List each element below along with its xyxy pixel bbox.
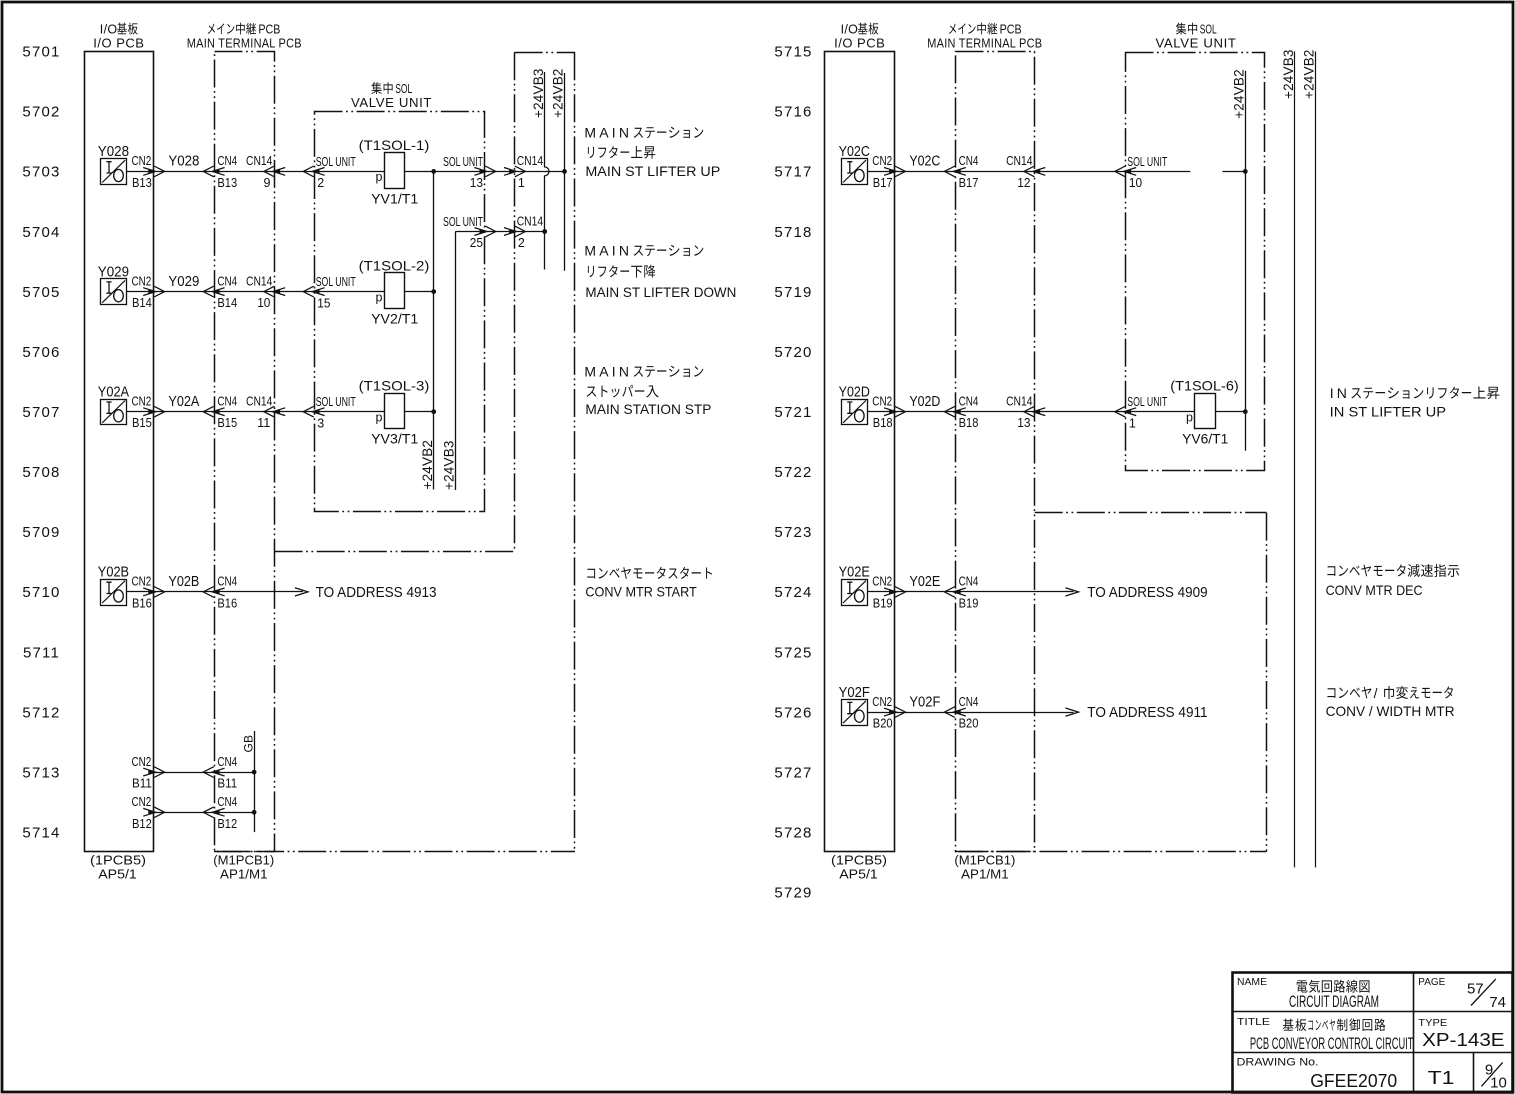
svg-text:Y02B: Y02B <box>168 574 199 590</box>
wire YV3/T1 coil to +24VB2 rail <box>405 411 434 413</box>
wire Y02F to address 4911 <box>868 712 1074 714</box>
svg-text:15: 15 <box>317 296 330 310</box>
svg-text:(T1SOL-1): (T1SOL-1) <box>359 137 430 153</box>
row label 5724 <box>774 584 812 601</box>
I/O output symbol Y028 <box>98 144 129 184</box>
I/O PCB header (right) <box>834 23 885 51</box>
svg-text:CN2: CN2 <box>132 575 152 589</box>
wire CN2-B12 to GB <box>154 812 254 814</box>
svg-text:B14: B14 <box>132 296 152 310</box>
svg-text:p: p <box>376 170 383 184</box>
CN14 harness box (left tall) <box>214 52 575 851</box>
+24VB2 rail (far right) <box>1301 49 1316 867</box>
wire label Y028 <box>168 154 199 170</box>
row label 5709 <box>22 524 60 541</box>
connector CN14 pin 11 <box>246 395 285 431</box>
svg-text:+24VB2: +24VB2 <box>1301 49 1316 99</box>
wire SOL UNIT 25 to +24VB3 rail <box>455 231 544 233</box>
junction YV6/T1 / +24VB2 rail <box>1243 409 1248 414</box>
solenoid coil YV2/T1 (T1SOL-2) <box>359 257 430 326</box>
svg-text:5701: 5701 <box>22 44 60 61</box>
svg-text:B14: B14 <box>217 296 237 310</box>
svg-text:5710: 5710 <box>22 584 60 601</box>
svg-text:25: 25 <box>470 236 483 250</box>
row label 5701 <box>22 44 60 61</box>
svg-text:CN14: CN14 <box>246 154 272 168</box>
svg-text:5725: 5725 <box>774 644 812 661</box>
svg-text:+24VB3: +24VB3 <box>442 440 457 490</box>
svg-text:Y02A: Y02A <box>168 394 199 410</box>
svg-text:B17: B17 <box>959 176 979 190</box>
svg-text:PCB: PCB <box>1000 23 1022 37</box>
solenoid coil YV1/T1 (T1SOL-1) <box>359 137 430 206</box>
svg-text:CN2: CN2 <box>132 755 152 769</box>
row label 5728 <box>774 825 812 842</box>
row label 5720 <box>774 344 812 361</box>
svg-text:MAIN STATION STP: MAIN STATION STP <box>585 401 711 417</box>
svg-text:+24VB2: +24VB2 <box>1232 69 1247 119</box>
row label 5717 <box>774 164 812 181</box>
VALVE UNIT box (left) <box>315 112 485 512</box>
wire CN2-B11 to GB <box>154 772 254 774</box>
svg-text:B15: B15 <box>132 416 152 430</box>
svg-text:CN4: CN4 <box>217 154 237 168</box>
svg-text:13: 13 <box>1017 416 1030 430</box>
svg-text:TO ADDRESS 4909: TO ADDRESS 4909 <box>1087 584 1207 601</box>
svg-text:GB: GB <box>241 735 255 753</box>
svg-text:CN2: CN2 <box>132 274 152 288</box>
row label 5711 <box>23 644 60 661</box>
row label 5723 <box>774 524 812 541</box>
svg-text:SOL UNIT: SOL UNIT <box>443 215 483 229</box>
svg-text:SOL UNIT: SOL UNIT <box>316 155 356 169</box>
row label 5729 <box>774 885 812 902</box>
svg-text:13: 13 <box>470 176 483 190</box>
connector CN4 pin B16 <box>203 575 237 611</box>
svg-text:5702: 5702 <box>22 104 60 121</box>
svg-text:T1: T1 <box>1428 1068 1455 1088</box>
connector CN4 pin B17 (right) <box>944 154 978 190</box>
connector CN4 pin B14 <box>203 274 237 310</box>
MAIN TERMINAL PCB header (left) <box>187 23 302 51</box>
svg-text:CN4: CN4 <box>959 575 979 589</box>
svg-text:Y02D: Y02D <box>839 385 870 401</box>
svg-text:MAIN: MAIN <box>584 363 632 379</box>
svg-text:I/O PCB: I/O PCB <box>834 36 885 51</box>
svg-text:XP-143E: XP-143E <box>1422 1030 1504 1050</box>
svg-text:B19: B19 <box>873 596 893 610</box>
title block PAGE cell <box>1418 976 1506 1011</box>
connector CN2 pin B16 <box>132 575 165 611</box>
svg-text:+24VB3: +24VB3 <box>1281 49 1296 99</box>
connector CN14 pin 12 <box>1006 154 1045 190</box>
+24VB2 rail (left valve unit) <box>420 171 435 489</box>
board ref (1PCB5) AP5/1 (left) <box>90 853 146 882</box>
I/O output symbol Y02C <box>839 144 870 184</box>
svg-text:VALVE UNIT: VALVE UNIT <box>1156 36 1237 51</box>
svg-text:AP1/M1: AP1/M1 <box>220 867 268 882</box>
row label 5706 <box>22 344 60 361</box>
svg-text:+24VB2: +24VB2 <box>420 440 435 490</box>
svg-text:SOL UNIT: SOL UNIT <box>1127 395 1167 409</box>
svg-text:Y028: Y028 <box>98 144 129 160</box>
svg-text:MAIN ST LIFTER DOWN: MAIN ST LIFTER DOWN <box>585 284 736 300</box>
svg-text:5703: 5703 <box>22 164 60 181</box>
svg-text:(1PCB5): (1PCB5) <box>90 853 146 868</box>
svg-text:5719: 5719 <box>774 284 812 301</box>
svg-text:3: 3 <box>317 416 324 430</box>
svg-text:CN14: CN14 <box>517 214 543 228</box>
svg-text:CN2: CN2 <box>872 575 892 589</box>
junction YV1/T1 / +24VB2 <box>431 169 436 174</box>
title block frame <box>1233 973 1514 1093</box>
annotation MAIN STATION STP <box>584 363 711 417</box>
MAIN TERMINAL PCB header (right) <box>927 23 1042 51</box>
I/O output symbol Y029 <box>98 264 129 304</box>
svg-text:CN2: CN2 <box>132 154 152 168</box>
svg-text:CIRCUIT DIAGRAM: CIRCUIT DIAGRAM <box>1289 993 1379 1011</box>
svg-text:TO ADDRESS 4911: TO ADDRESS 4911 <box>1087 704 1207 721</box>
row label 5708 <box>22 464 60 481</box>
svg-text:IN: IN <box>1330 385 1350 401</box>
svg-text:CN4: CN4 <box>959 154 979 168</box>
title block TITLE cell <box>1237 1016 1414 1053</box>
row label 5705 <box>22 284 60 301</box>
connector SOL UNIT pin 2 <box>303 155 356 190</box>
+24VB3 rail (left valve unit) <box>442 232 457 491</box>
svg-text:5728: 5728 <box>774 825 812 842</box>
wire Y02C to valve unit <box>868 171 1246 173</box>
connector CN2 pin B20 (right) <box>872 695 905 731</box>
connector CN2 pin B15 <box>132 395 165 431</box>
connector SOL UNIT pin 25 (valve out) <box>443 215 496 250</box>
svg-text:5705: 5705 <box>22 284 60 301</box>
svg-text:5711: 5711 <box>23 644 60 661</box>
wire label Y02E <box>909 574 940 590</box>
svg-text:1: 1 <box>1129 416 1136 430</box>
svg-text:5715: 5715 <box>774 44 812 61</box>
wire Y028 I/O to valve unit <box>127 171 385 173</box>
svg-text:TO ADDRESS 4913: TO ADDRESS 4913 <box>316 584 437 601</box>
svg-text:10: 10 <box>257 296 270 310</box>
svg-text:CN14: CN14 <box>246 395 272 409</box>
svg-text:B13: B13 <box>217 176 237 190</box>
connector CN14 pin 13 <box>1006 395 1045 431</box>
svg-text:5706: 5706 <box>22 344 60 361</box>
I/O output symbol Y02D <box>839 385 870 425</box>
connector SOL UNIT pin 1 <box>1115 395 1168 430</box>
wire label Y02D <box>909 394 940 410</box>
svg-text:5723: 5723 <box>774 524 812 541</box>
arrow to address 4911 <box>1065 704 1207 721</box>
row label 5704 <box>22 224 60 241</box>
svg-text:I/O PCB: I/O PCB <box>93 36 144 51</box>
svg-text:B16: B16 <box>132 596 152 610</box>
svg-text:CN4: CN4 <box>217 755 237 769</box>
svg-text:Y02A: Y02A <box>98 385 130 401</box>
svg-text:CN4: CN4 <box>217 795 237 809</box>
I/O output symbol Y02A <box>98 385 130 425</box>
svg-text:p: p <box>1186 411 1193 425</box>
wire label Y029 <box>168 274 199 290</box>
svg-text:CN14: CN14 <box>1006 395 1032 409</box>
title block sheet 9/10 cell <box>1482 1062 1507 1092</box>
row label 5719 <box>774 284 812 301</box>
svg-text:10: 10 <box>1490 1074 1507 1091</box>
svg-text:B19: B19 <box>959 596 979 610</box>
svg-text:SOL UNIT: SOL UNIT <box>316 275 356 289</box>
svg-text:5707: 5707 <box>22 404 60 421</box>
svg-text:GFEE2070: GFEE2070 <box>1310 1071 1397 1091</box>
svg-text:Y029: Y029 <box>168 274 199 290</box>
+24VB2 rail (left top) <box>551 68 566 270</box>
row label 5726 <box>774 704 812 721</box>
svg-text:MAIN: MAIN <box>584 243 632 259</box>
row label 5727 <box>774 764 812 781</box>
svg-text:CN4: CN4 <box>217 395 237 409</box>
junction CN14-2 / +24VB3 rail <box>542 229 547 234</box>
svg-text:p: p <box>376 290 383 304</box>
title block DRAWING cell <box>1237 1056 1398 1091</box>
svg-text:+24VB3: +24VB3 <box>531 68 546 118</box>
svg-text:5714: 5714 <box>22 825 60 842</box>
row label 5712 <box>22 704 60 721</box>
svg-text:9: 9 <box>263 176 270 190</box>
junction B11 / GB rail <box>252 770 257 775</box>
row label 5716 <box>774 104 812 121</box>
row label 5722 <box>774 464 812 481</box>
wire label Y02A <box>168 394 199 410</box>
svg-text:5720: 5720 <box>774 344 812 361</box>
svg-text:B11: B11 <box>217 777 237 791</box>
connector CN4 pin B19 (right) <box>944 575 978 611</box>
wire Y02B to address 4913 <box>127 591 303 593</box>
row label 5721 <box>774 404 812 421</box>
svg-text:Y02C: Y02C <box>839 144 870 160</box>
svg-text:TITLE: TITLE <box>1237 1016 1270 1028</box>
wire Y02D to coil <box>868 411 1195 413</box>
row label 5702 <box>22 104 60 121</box>
GB rail <box>241 731 255 832</box>
svg-text:AP1/M1: AP1/M1 <box>961 867 1009 882</box>
svg-text:DRAWING No.: DRAWING No. <box>1237 1056 1319 1068</box>
svg-text:5709: 5709 <box>22 524 60 541</box>
connector CN4 pin B18 (right) <box>944 395 978 431</box>
junction YV2/T1 / +24VB2 <box>431 289 436 294</box>
svg-text:MAIN ST LIFTER UP: MAIN ST LIFTER UP <box>585 163 720 179</box>
wire YV2/T1 coil to +24VB2 rail <box>405 291 434 293</box>
svg-text:5712: 5712 <box>22 704 60 721</box>
row label 5714 <box>22 825 60 842</box>
I/O PCB header (left) <box>93 23 144 51</box>
svg-text:(T1SOL-3): (T1SOL-3) <box>359 377 430 393</box>
row label 5715 <box>774 44 812 61</box>
junction YV3/T1 / +24VB2 <box>431 409 436 414</box>
wire label Y02B <box>168 574 199 590</box>
svg-text:CONV MTR START: CONV MTR START <box>585 583 697 599</box>
svg-text:5721: 5721 <box>774 404 812 421</box>
connector CN2 pin B19 (right) <box>872 575 905 611</box>
svg-text:I/O: I/O <box>100 23 118 37</box>
cable shield line (left outer) <box>275 52 515 552</box>
svg-text:B16: B16 <box>217 596 237 610</box>
svg-text:5717: 5717 <box>774 164 812 181</box>
solenoid coil YV3/T1 (T1SOL-3) <box>359 377 430 446</box>
connector CN4 pin B12 <box>203 795 237 831</box>
svg-text:AP5/1: AP5/1 <box>98 867 137 882</box>
I/O output symbol Y02E <box>839 565 871 606</box>
svg-text:YV6/T1: YV6/T1 <box>1182 431 1228 447</box>
wire Y02A I/O to valve unit <box>127 411 385 413</box>
connector SOL UNIT pin 10 <box>1115 155 1168 190</box>
connector CN14 pin 9 <box>246 154 285 190</box>
svg-text:5713: 5713 <box>22 764 60 781</box>
row label 5713 <box>22 764 60 781</box>
connector CN2 pin B13 <box>132 154 165 190</box>
svg-text:B11: B11 <box>132 777 152 791</box>
wire YV1/T1 coil to +24VB2 rail <box>405 171 565 173</box>
svg-text:MAIN TERMINAL PCB: MAIN TERMINAL PCB <box>187 36 302 51</box>
cable shield line (right mid) <box>1035 513 1267 852</box>
svg-text:5716: 5716 <box>774 104 812 121</box>
cable shield bottom (right) <box>955 851 1266 853</box>
svg-text:(M1PCB1): (M1PCB1) <box>954 853 1015 868</box>
VALVE UNIT header (right) <box>1156 23 1237 51</box>
svg-text:Y02C: Y02C <box>909 154 940 170</box>
svg-text:CN2: CN2 <box>872 695 892 709</box>
svg-text:VALVE UNIT: VALVE UNIT <box>351 95 432 110</box>
svg-text:TYPE: TYPE <box>1418 1017 1447 1029</box>
svg-text:PCB CONVEYOR CONTROL CIRCUIT: PCB CONVEYOR CONTROL CIRCUIT <box>1250 1035 1414 1053</box>
svg-text:B18: B18 <box>959 416 979 430</box>
svg-text:B13: B13 <box>132 176 152 190</box>
svg-text:CN4: CN4 <box>217 274 237 288</box>
svg-text:5727: 5727 <box>774 764 812 781</box>
svg-text:B17: B17 <box>873 176 893 190</box>
board ref (M1PCB1) AP1/M1 (left) <box>213 853 274 882</box>
connector CN14 pin 10 <box>246 274 285 310</box>
wire label Y02C <box>909 154 940 170</box>
I/O PCB box (right) <box>825 52 895 852</box>
svg-text:NAME: NAME <box>1237 976 1267 988</box>
row label 5703 <box>22 164 60 181</box>
+24VB2 rail (right valve unit) <box>1232 69 1247 451</box>
svg-text:5718: 5718 <box>774 224 812 241</box>
arrow to address 4909 <box>1065 584 1207 601</box>
annotation CONV MTR START <box>585 567 712 599</box>
svg-text:(T1SOL-2): (T1SOL-2) <box>359 257 430 273</box>
svg-text:YV3/T1: YV3/T1 <box>371 431 418 447</box>
title block TYPE cell <box>1418 1017 1504 1050</box>
svg-text:CN14: CN14 <box>246 274 272 288</box>
I/O PCB box (left) <box>85 52 154 852</box>
svg-text:2: 2 <box>518 236 525 250</box>
junction CN14-1 / +24VB2 rail <box>562 169 567 174</box>
connector CN2 pin B17 (right) <box>872 154 905 190</box>
connector CN4 pin B15 <box>203 395 237 431</box>
connector SOL UNIT pin 3 <box>303 395 356 430</box>
I/O output symbol Y02F <box>839 685 870 726</box>
svg-text:AP5/1: AP5/1 <box>839 867 878 882</box>
svg-text:SOL: SOL <box>395 82 412 96</box>
connector CN4 pin B20 (right) <box>944 695 978 731</box>
connector CN2 pin B18 (right) <box>872 395 905 431</box>
connector CN14 pin 2 (harness) <box>504 214 543 250</box>
connector CN2 pin B14 <box>132 274 165 310</box>
svg-text:Y02E: Y02E <box>839 565 871 581</box>
board ref (1PCB5) AP5/1 (right) <box>831 853 887 882</box>
solenoid coil YV6/T1 (T1SOL-6) <box>1170 377 1238 446</box>
svg-text:Y02E: Y02E <box>909 574 940 590</box>
arrow to address 4913 <box>295 584 437 601</box>
svg-text:I/O: I/O <box>841 23 859 37</box>
title block T1 cell <box>1428 1068 1455 1088</box>
svg-text:CN14: CN14 <box>517 154 543 168</box>
svg-text:1: 1 <box>518 176 525 190</box>
connector CN4 pin B11 <box>203 755 237 791</box>
svg-text:11: 11 <box>257 416 270 430</box>
VALVE UNIT box (right) <box>1126 53 1265 471</box>
board ref (M1PCB1) AP1/M1 (right) <box>954 853 1015 882</box>
connector SOL UNIT pin 15 <box>303 275 356 310</box>
svg-text:CN4: CN4 <box>217 575 237 589</box>
svg-text:5726: 5726 <box>774 704 812 721</box>
row label 5718 <box>774 224 812 241</box>
svg-text:SOL UNIT: SOL UNIT <box>443 155 483 169</box>
wire Y029 I/O to valve unit <box>127 291 385 293</box>
connector CN14 pin 1 (harness) <box>504 154 543 190</box>
svg-text:74: 74 <box>1489 994 1506 1011</box>
wire YV6/T1 coil to +24VB2 rail <box>1216 411 1246 413</box>
row label 5707 <box>22 404 60 421</box>
MAIN TERMINAL PCB box (left) <box>215 52 275 852</box>
svg-text:5724: 5724 <box>774 584 812 601</box>
annotation CONV MTR DEC <box>1326 564 1460 598</box>
svg-text:YV1/T1: YV1/T1 <box>371 190 418 206</box>
svg-text:CN4: CN4 <box>959 395 979 409</box>
connector CN4 pin B13 <box>203 154 237 190</box>
svg-text:IN ST LIFTER UP: IN ST LIFTER UP <box>1330 403 1446 419</box>
svg-text:/: / <box>1374 685 1378 701</box>
junction B12 / GB rail <box>252 810 257 815</box>
svg-text:SOL UNIT: SOL UNIT <box>1127 155 1167 169</box>
svg-text:B20: B20 <box>959 717 979 731</box>
connector SOL UNIT pin 13 (valve out) <box>443 155 496 190</box>
svg-text:CN2: CN2 <box>872 154 892 168</box>
svg-text:YV2/T1: YV2/T1 <box>371 311 418 327</box>
annotation IN ST LIFTER UP <box>1330 385 1500 419</box>
svg-text:CONV / WIDTH MTR: CONV / WIDTH MTR <box>1326 703 1455 719</box>
svg-text:(M1PCB1): (M1PCB1) <box>213 853 274 868</box>
I/O output symbol Y02B <box>98 565 129 606</box>
svg-text:12: 12 <box>1017 176 1030 190</box>
svg-text:CN14: CN14 <box>1006 154 1032 168</box>
svg-text:CN2: CN2 <box>132 795 152 809</box>
MAIN TERMINAL PCB box (right) <box>956 52 1035 852</box>
svg-text:PAGE: PAGE <box>1418 976 1445 988</box>
svg-text:CN2: CN2 <box>872 395 892 409</box>
svg-text:(T1SOL-6): (T1SOL-6) <box>1170 377 1238 393</box>
svg-text:B12: B12 <box>217 817 237 831</box>
VALVE UNIT header (left) <box>351 82 432 110</box>
connector CN2 pin B12 <box>132 795 165 831</box>
svg-text:5704: 5704 <box>22 224 60 241</box>
svg-text:5722: 5722 <box>774 464 812 481</box>
row label 5710 <box>22 584 60 601</box>
svg-text:B20: B20 <box>873 717 893 731</box>
svg-text:CONV MTR DEC: CONV MTR DEC <box>1326 582 1423 598</box>
svg-text:B15: B15 <box>217 416 237 430</box>
